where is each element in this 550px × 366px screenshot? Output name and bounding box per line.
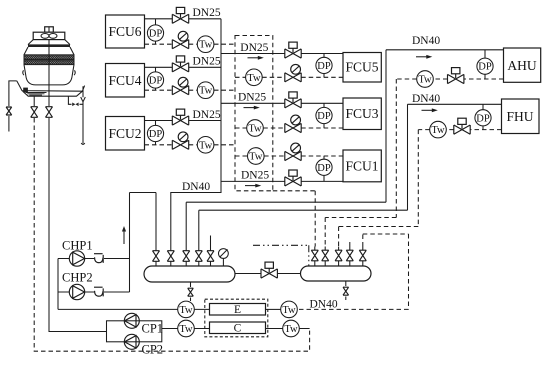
evaporator outlet pipe <box>266 308 281 310</box>
Tw sensor evaporator outlet <box>281 301 298 318</box>
FCU5 flow arrow <box>248 56 264 60</box>
svg-text:CHP2: CHP2 <box>62 271 93 285</box>
svg-text:DN40: DN40 <box>412 35 440 47</box>
svg-text:DN25: DN25 <box>240 42 268 54</box>
header bypass pipe <box>235 273 301 275</box>
Tw sensor condenser inlet <box>178 320 195 337</box>
FCU5 supply valve <box>285 42 301 58</box>
return header valve 3 <box>335 247 342 267</box>
FCU4 control valve <box>172 77 188 95</box>
svg-text:AHU: AHU <box>507 58 536 73</box>
make-up water pipe <box>9 81 17 132</box>
FCU3 return pipe <box>235 127 343 129</box>
basin drain branch <box>68 96 83 104</box>
tower deck line <box>28 44 70 47</box>
FCU6 return pipe <box>145 43 236 45</box>
FCU3 control valve <box>285 115 301 133</box>
FCU5 control valve <box>285 64 301 82</box>
FCU6 supply pipe DN25 <box>145 18 222 20</box>
bypass valve <box>261 262 277 278</box>
FCU1 DP sensor <box>316 156 332 181</box>
FCU5 DP sensor <box>316 54 332 78</box>
CHP discharge riser <box>130 193 157 293</box>
evaporator E box <box>210 304 266 316</box>
FHU box <box>502 99 540 134</box>
chilled water supply riser DN40 <box>171 19 221 247</box>
FCU4 Tw sensor <box>197 82 214 99</box>
tower lower body <box>24 65 74 85</box>
FCU4 supply valve <box>172 56 188 72</box>
FCU2 supply pipe DN25 <box>145 120 222 122</box>
basin outlet valve B <box>46 107 53 118</box>
FCU4 DP sensor <box>147 67 163 90</box>
pump CHP1 <box>69 251 84 266</box>
FCU4 return pipe <box>145 89 236 91</box>
svg-text:FCU1: FCU1 <box>345 159 378 174</box>
FCU1 box <box>343 150 381 182</box>
condenser outlet pipe <box>266 328 310 330</box>
basin return valve A stub <box>33 96 35 106</box>
svg-text:FCU3: FCU3 <box>345 106 378 121</box>
FCU1 control valve <box>285 143 301 161</box>
FCU6 DP sensor <box>147 19 163 44</box>
basin return valve A <box>31 107 38 118</box>
basin water hatching <box>26 93 47 96</box>
CHP1 check valve <box>94 254 103 263</box>
svg-text:FCU4: FCU4 <box>108 73 141 88</box>
fan motor box <box>45 27 54 32</box>
FCU3 supply pipe DN25 <box>221 102 343 104</box>
supply header valve 4 <box>195 247 202 267</box>
FCU4 box <box>106 64 145 98</box>
FCU3 flow arrow <box>244 106 260 110</box>
svg-text:E: E <box>234 304 241 316</box>
overflow pipe with break <box>82 86 84 143</box>
FCU6 Tw sensor <box>197 36 214 53</box>
Tw sensor evaporator inlet <box>178 301 195 318</box>
FHU DP sensor <box>475 104 491 129</box>
condenser inlet pipe <box>162 328 210 330</box>
supply header valve 1 <box>153 247 160 267</box>
AHU return valve <box>448 68 464 84</box>
FCU6 control valve <box>172 31 188 49</box>
FCU5 return pipe <box>235 76 343 78</box>
FCU6 box <box>106 15 145 48</box>
pump CHP2 <box>69 284 84 299</box>
AHU box <box>504 48 541 82</box>
FHU return pipe <box>418 129 501 131</box>
AHU return riser <box>325 79 396 247</box>
spray nozzle right <box>74 70 75 75</box>
FCU3 box <box>343 98 381 130</box>
condenser C box <box>210 322 266 334</box>
FHU flow arrow <box>422 108 438 112</box>
fan blades <box>41 34 57 39</box>
tower fill band <box>24 55 74 65</box>
FHU return valve <box>454 118 470 134</box>
pipe break mark <box>81 97 86 102</box>
evaporator return main DN40 <box>297 234 408 309</box>
FCU3 DP sensor <box>316 103 332 128</box>
evaporator inlet pipe <box>58 308 210 310</box>
svg-text:DN25: DN25 <box>238 92 266 104</box>
FHU Tw sensor <box>430 121 447 138</box>
FHU return riser <box>339 130 419 247</box>
float valve <box>23 88 28 93</box>
FCU4 supply pipe DN25 <box>145 66 222 68</box>
spray nozzle left <box>23 70 24 75</box>
return header valve 5 <box>359 247 366 267</box>
supply header vessel <box>144 266 235 282</box>
FCU1 supply valve <box>285 170 301 186</box>
supply header valve 2 <box>167 247 174 267</box>
svg-text:CP1: CP1 <box>142 322 164 336</box>
return header vessel <box>301 266 372 281</box>
return header valve 2 <box>322 247 329 267</box>
FCU5 supply pipe DN25 <box>221 53 343 55</box>
middle zone return main to header <box>273 191 315 247</box>
FCU2 DP sensor <box>147 121 163 145</box>
AHU DP sensor <box>477 50 493 79</box>
flow arrow up <box>122 226 126 244</box>
drain branch valve <box>72 103 78 107</box>
svg-text:DN25: DN25 <box>241 169 269 181</box>
chemical feed line dash-dot <box>253 245 309 266</box>
middle return zone dashed box <box>235 36 273 191</box>
AHU flow arrow <box>416 55 432 59</box>
tower upper body sides <box>24 47 74 55</box>
svg-text:FCU2: FCU2 <box>108 126 141 141</box>
drain outlet hook <box>81 143 85 145</box>
svg-text:C: C <box>234 322 242 334</box>
return header drain valve <box>343 281 349 300</box>
CP pump manifold box <box>107 321 162 342</box>
svg-text:DN40: DN40 <box>412 93 440 105</box>
basin outlet valve B stub <box>48 96 50 106</box>
svg-text:DN25: DN25 <box>193 109 221 121</box>
supply header valve 5 spare stub <box>207 236 214 267</box>
pump CP2 <box>124 334 139 349</box>
svg-text:DN25: DN25 <box>193 56 221 68</box>
FCU6 supply valve <box>172 7 188 23</box>
FCU3 Tw sensor <box>247 120 264 137</box>
supply header drain valve <box>188 282 194 301</box>
FCU2 box <box>106 117 145 151</box>
FCU2 control valve <box>172 132 188 150</box>
FCU2 return pipe <box>145 144 236 146</box>
Tw sensor condenser outlet <box>283 320 300 337</box>
AHU return pipe <box>396 78 503 80</box>
FCU1 supply pipe DN25 <box>221 180 343 182</box>
FCU5 Tw sensor <box>246 69 263 86</box>
CHP1 piping <box>58 258 130 260</box>
FCU1 flow arrow <box>245 184 261 188</box>
svg-text:FCU5: FCU5 <box>345 60 378 75</box>
return header valve 1 <box>311 247 318 267</box>
supply header valve 3 <box>183 247 190 267</box>
cooling tower CT <box>6 27 85 145</box>
pump CP1 <box>124 313 139 328</box>
pressure gauge <box>219 249 229 266</box>
basin pan <box>17 81 85 96</box>
FCU5 box <box>343 53 381 83</box>
fan housing <box>33 32 65 39</box>
FCU1 Tw sensor <box>248 148 265 165</box>
FCU2 Tw sensor <box>197 137 214 154</box>
AHU Tw sensor <box>417 71 434 88</box>
CHP2 check valve <box>94 287 103 296</box>
FCU3 supply valve <box>285 92 301 108</box>
svg-text:DN25: DN25 <box>193 7 221 19</box>
chiller dashed enclosure <box>205 299 268 337</box>
condenser water supply pipe (tower to CP pumps) <box>49 118 107 332</box>
condenser water return pipe (dashed border: C to tower) <box>34 118 309 351</box>
tower internal riser pipe <box>48 40 50 97</box>
svg-text:FCU6: FCU6 <box>108 24 141 39</box>
FHU supply pipe DN40 <box>199 104 502 246</box>
AHU supply pipe DN40 <box>186 50 503 247</box>
CHP2 piping <box>58 291 130 293</box>
make-up valve <box>6 107 12 115</box>
svg-text:FHU: FHU <box>506 109 533 124</box>
svg-text:CP2: CP2 <box>142 343 164 357</box>
CHP suction manifold <box>57 259 59 310</box>
return header valve 4 spare stub <box>346 240 353 266</box>
svg-text:DN40: DN40 <box>310 299 338 311</box>
FCU2 supply valve <box>172 109 188 125</box>
tower transition flare <box>28 40 70 45</box>
svg-text:DN40: DN40 <box>182 181 210 193</box>
FCU1 return pipe <box>235 155 343 157</box>
